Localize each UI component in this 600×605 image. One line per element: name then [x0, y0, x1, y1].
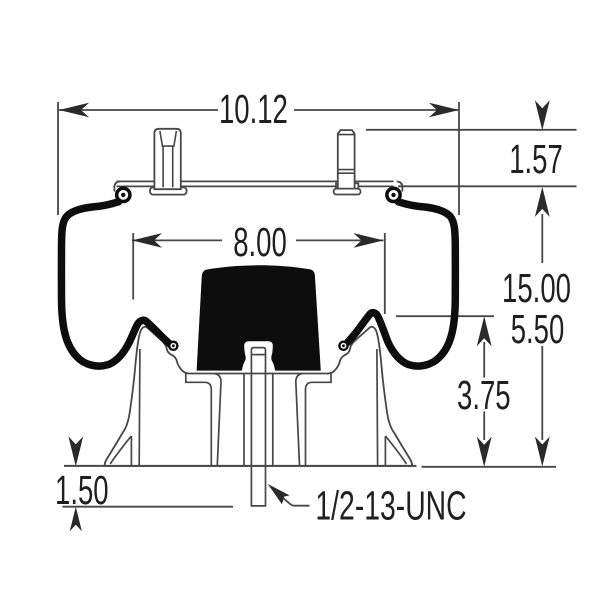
svg-text:1.50: 1.50: [55, 469, 109, 513]
3.75 dimension shaft lower: [483, 412, 485, 441]
bead plate rolled edge right: [385, 187, 402, 204]
reference line stud top 1.57: [366, 129, 577, 131]
stud base step right: [336, 183, 358, 189]
svg-text:1/2-13-UNC: 1/2-13-UNC: [315, 484, 466, 529]
piston skirt right half (mirror): [258, 327, 412, 466]
arrow 3.75 up: [477, 316, 492, 346]
reference line plate bottom right: [398, 185, 577, 187]
stud flange left: [150, 187, 187, 194]
stud body left (air fitting): [154, 129, 180, 189]
dimension texts: [55, 88, 571, 529]
arrow 1.50 down: [68, 436, 83, 466]
arrow 8.00 left: [132, 233, 162, 248]
dimension line 8.00: [132, 239, 222, 241]
centre stud 1/2-13-UNC: [251, 348, 265, 506]
thin dimension and reference lines: [58, 102, 577, 507]
15.00 dimension shaft upper: [541, 214, 543, 263]
bottom reference line right: [422, 466, 557, 468]
extension line right of 10.12: [458, 102, 460, 215]
stud left socket detail: [160, 131, 177, 188]
skirt channel step left: [186, 374, 212, 466]
stud right thread lines: [338, 135, 355, 174]
bead plate bottom line: [117, 185, 394, 187]
extension line left of 10.12: [57, 102, 59, 215]
dimension line 10.12: [59, 109, 218, 111]
skirt gusset left vertical: [130, 436, 132, 465]
reference line lobe bottom 3.75: [396, 315, 494, 317]
arrow 1.50 up: [70, 507, 82, 532]
extension line right of 8.00: [384, 233, 386, 314]
cutout wall left: [243, 374, 245, 466]
arrow 10.12 right: [429, 103, 459, 118]
1.50 lower reference line: [63, 506, 234, 508]
piston skirt left half: [105, 327, 259, 466]
extension line left of 8.00: [132, 233, 134, 300]
svg-text:3.75: 3.75: [457, 374, 511, 418]
svg-text:10.12: 10.12: [219, 88, 288, 132]
arrow leader 1/2-13-UNC: [268, 484, 290, 504]
skirt bottom edge line: [64, 465, 417, 467]
bead plate right end curl edge: [397, 181, 403, 191]
15.00 dimension shaft lower: [541, 346, 543, 440]
skirt inner wall left: [138, 349, 141, 465]
bellows end curl left: [168, 341, 179, 352]
stud body right: [338, 130, 355, 189]
bellows left lobe (thick): [61, 202, 169, 366]
3.75 dimension shaft upper: [483, 342, 485, 378]
skirt slant wall left: [215, 374, 222, 466]
leader line 1/2-13-UNC: [272, 489, 310, 506]
arrow 15.00 down: [535, 437, 550, 467]
arrow 8.00 right: [354, 233, 384, 248]
bead plate rolled edge left: [115, 187, 132, 204]
bellows right lobe (thick): [348, 202, 456, 366]
arrowheads: [59, 100, 550, 531]
arrow 10.12 left: [59, 103, 89, 118]
bellows end curl right: [338, 341, 349, 352]
svg-text:5.50: 5.50: [511, 308, 565, 352]
piston (black): [197, 265, 321, 370]
bead plate left end curl edge: [114, 181, 120, 191]
arrow 15.00 up: [535, 187, 550, 217]
svg-text:1.57: 1.57: [509, 138, 563, 182]
stud flange right: [334, 189, 361, 195]
skirt gusset left hypotenuse: [110, 436, 131, 464]
bead plate top line: [114, 181, 402, 191]
svg-text:15.00: 15.00: [502, 267, 571, 311]
arrow 3.75 down: [477, 437, 492, 467]
arrow 1.57 down: [535, 100, 550, 130]
svg-text:8.00: 8.00: [233, 221, 287, 265]
